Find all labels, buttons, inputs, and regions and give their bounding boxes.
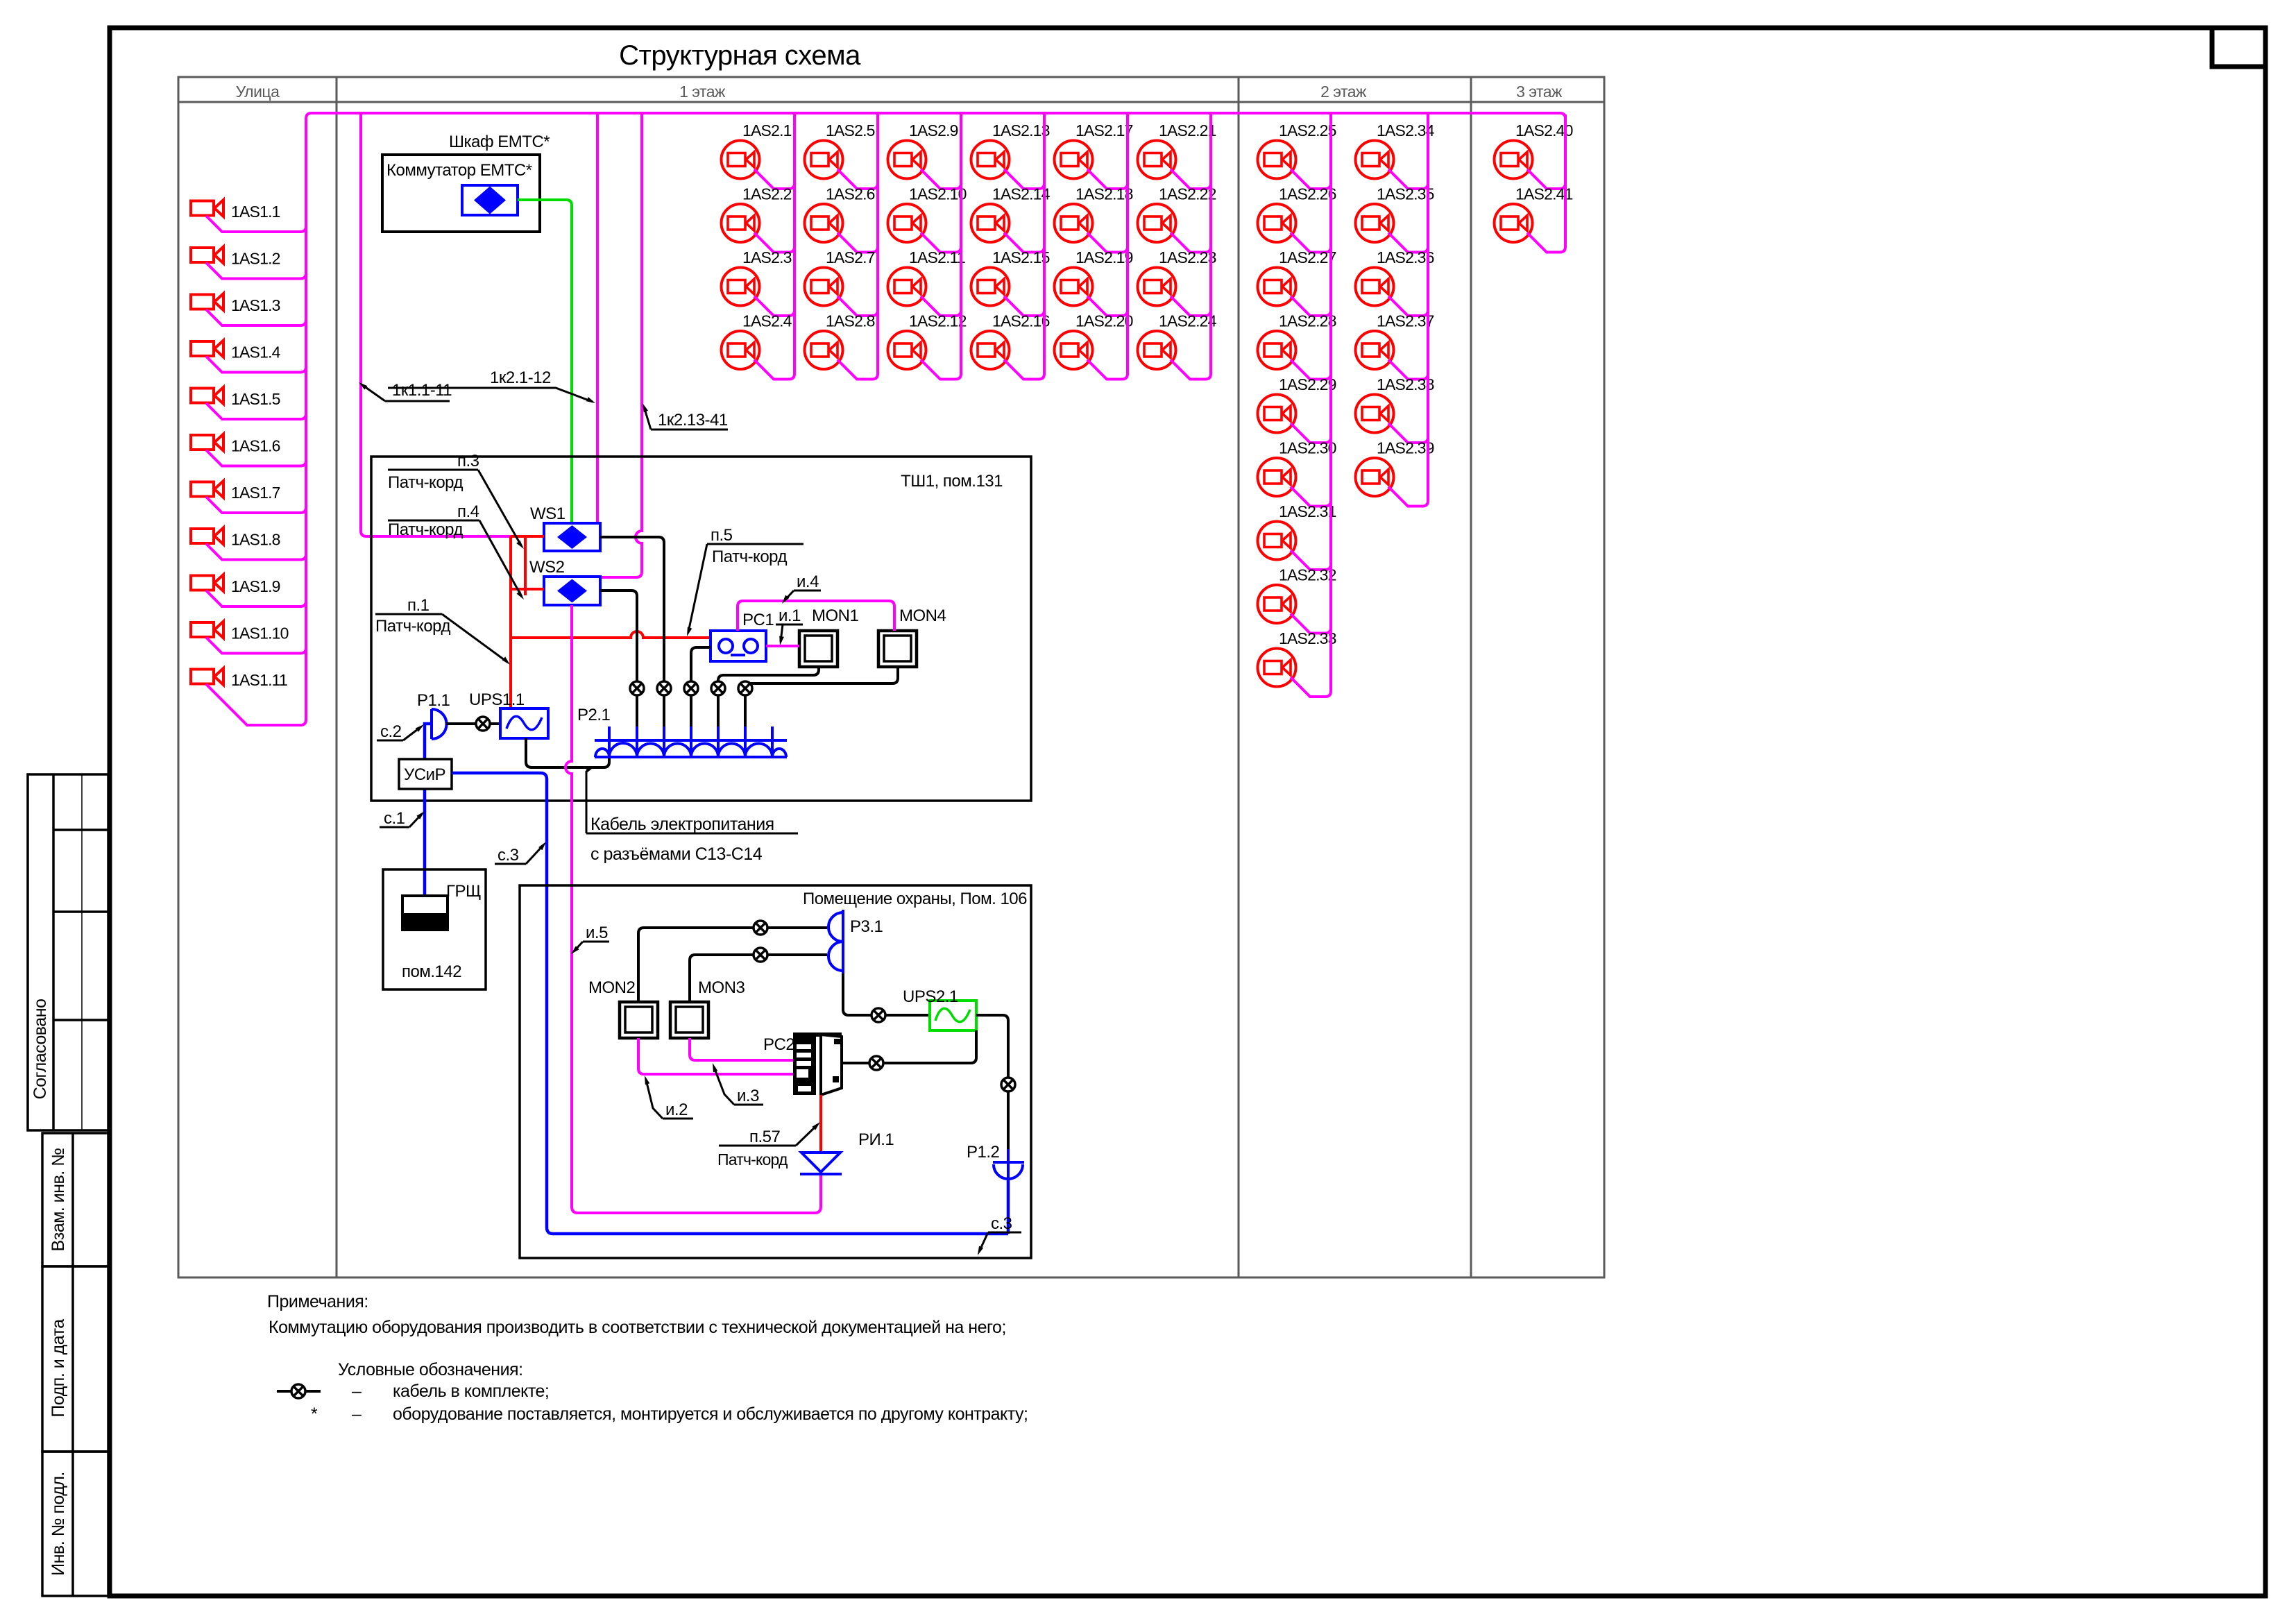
wire camera 1AS1.8 to street bus <box>206 544 306 560</box>
label Кабель электропитания <box>586 766 798 834</box>
wire camera 1AS2.2 to bus <box>754 233 794 253</box>
svg-text:Подп. и дата: Подп. и дата <box>49 1319 68 1418</box>
black wire P3.1 to UPS2.1 <box>843 974 930 1015</box>
label п.4 Патч-корд <box>388 502 524 600</box>
dome camera 1AS2.24 <box>1138 331 1176 369</box>
dome camera 1AS2.8 <box>805 331 843 369</box>
wire camera 1AS2.37 to bus <box>1388 360 1428 380</box>
dome camera 1AS2.20 <box>1055 331 1093 369</box>
wire camera 1AS2.39 to bus <box>1388 487 1428 507</box>
wire camera 1AS2.35 to bus <box>1388 233 1428 253</box>
box ГРЩ пом.142 <box>383 869 486 989</box>
stamp block Взам. инв. № <box>42 1133 108 1266</box>
svg-text:1AS2.1: 1AS2.1 <box>742 121 792 139</box>
red patch-cord п.57 PC2 to РИ.1 <box>819 1095 822 1153</box>
dome camera 1AS2.3 <box>722 268 760 306</box>
cable label 1к2.1-12 <box>388 368 595 403</box>
black power wire PC1 <box>691 647 711 757</box>
svg-text:1AS2.9: 1AS2.9 <box>909 121 958 139</box>
wire camera 1AS2.20 to bus <box>1087 360 1128 380</box>
svg-text:1AS1.6: 1AS1.6 <box>231 437 280 455</box>
svg-text:1AS2.21: 1AS2.21 <box>1159 121 1216 139</box>
wire camera 1AS2.30 to bus <box>1291 487 1331 507</box>
svg-text:1AS2.31: 1AS2.31 <box>1279 502 1336 520</box>
dome camera 1AS2.14 <box>971 204 1010 242</box>
svg-text:1AS1.5: 1AS1.5 <box>231 390 280 408</box>
svg-text:PC1: PC1 <box>742 611 774 629</box>
svg-text:1AS1.1: 1AS1.1 <box>231 203 280 221</box>
box Помещение охраны <box>520 885 1031 1258</box>
cable label 1к2.13-41 <box>643 403 728 430</box>
wire camera 1AS2.27 to bus <box>1291 296 1331 316</box>
dome camera 1AS2.23 <box>1138 268 1176 306</box>
dome camera 1AS2.33 <box>1258 649 1296 687</box>
monitor MON2 <box>620 1002 658 1038</box>
svg-text:и.1: и.1 <box>779 606 801 625</box>
wire camera 1AS2.7 to bus <box>837 296 878 316</box>
dome camera 1AS2.4 <box>722 331 760 369</box>
svg-text:1AS2.26: 1AS2.26 <box>1279 185 1336 203</box>
black power wire PC2 to UPS2.1 <box>842 1030 976 1063</box>
svg-text:п.3: п.3 <box>457 452 479 470</box>
black wire P1.1 to UPS1.1 <box>446 722 500 725</box>
dome camera 1AS2.16 <box>971 331 1010 369</box>
svg-text:1AS2.23: 1AS2.23 <box>1159 248 1216 266</box>
svg-text:1AS2.29: 1AS2.29 <box>1279 375 1336 393</box>
wire camera 1AS2.38 to bus <box>1388 423 1428 443</box>
svg-text:п.4: п.4 <box>457 502 479 521</box>
dome camera 1AS2.17 <box>1055 141 1093 179</box>
svg-text:1к2.1-12: 1к2.1-12 <box>490 368 551 387</box>
svg-text:Коммутацию оборудования произв: Коммутацию оборудования производить в со… <box>269 1318 1006 1337</box>
svg-text:1 этаж: 1 этаж <box>679 83 726 101</box>
dome camera 1AS2.38 <box>1356 395 1394 433</box>
svg-text:кабель в комплекте;: кабель в комплекте; <box>393 1382 549 1401</box>
wire trunk drop 1к2.13-41 to WS2 <box>600 113 642 577</box>
wire camera 1AS2.24 to bus <box>1171 360 1211 380</box>
wire camera 1AS1.4 to street bus <box>206 357 306 373</box>
camera bus at x=1625 <box>1126 114 1129 374</box>
dome camera 1AS2.31 <box>1258 522 1296 560</box>
switch WS2 <box>544 577 600 605</box>
svg-text:1к1.1-11: 1к1.1-11 <box>392 381 452 400</box>
svg-text:1AS2.3: 1AS2.3 <box>742 248 792 266</box>
svg-text:п.5: п.5 <box>711 526 733 545</box>
svg-text:1AS2.32: 1AS2.32 <box>1279 566 1336 584</box>
switch WS1 <box>544 523 600 551</box>
wire camera 1AS2.34 to bus <box>1388 169 1428 189</box>
dome camera 1AS2.11 <box>888 268 926 306</box>
wire camera 1AS2.14 to bus <box>1004 233 1044 253</box>
svg-text:1AS2.5: 1AS2.5 <box>826 121 875 139</box>
svg-text:ТШ1, пом.131: ТШ1, пом.131 <box>901 472 1003 491</box>
wire camera 1AS2.23 to bus <box>1171 296 1211 316</box>
svg-text:п.1: п.1 <box>407 596 430 615</box>
wire camera 1AS1.7 to street bus <box>206 497 306 513</box>
wire camera 1AS2.10 to bus <box>921 233 961 253</box>
label с.2 <box>377 722 424 741</box>
camera 1AS1.6 <box>191 434 223 451</box>
svg-text:1AS2.13: 1AS2.13 <box>992 121 1050 139</box>
wire camera 1AS2.22 to bus <box>1171 233 1211 253</box>
wire camera 1AS2.29 to bus <box>1291 423 1331 443</box>
label п.3 Патч-корд <box>388 452 524 549</box>
monitor MON4 <box>878 631 917 667</box>
wire camera 1AS2.26 to bus <box>1291 233 1331 253</box>
camera 1AS1.7 <box>191 481 223 498</box>
svg-text:1AS2.27: 1AS2.27 <box>1279 248 1336 266</box>
switchboard ГРЩ icon <box>402 896 448 930</box>
dome camera 1AS2.34 <box>1356 141 1394 179</box>
wire camera 1AS2.32 to bus <box>1291 614 1331 634</box>
svg-text:1AS2.15: 1AS2.15 <box>992 248 1050 266</box>
svg-text:ГРЩ: ГРЩ <box>446 882 481 901</box>
dome camera 1AS2.12 <box>888 331 926 369</box>
svg-text:–: – <box>352 1382 362 1401</box>
wire camera 1AS2.12 to bus <box>921 360 961 380</box>
UPS UPS2.1 <box>930 1001 976 1030</box>
dome camera 1AS2.30 <box>1258 458 1296 496</box>
svg-text:P1.2: P1.2 <box>967 1143 1000 1162</box>
black wire MON2 to P3.1 <box>638 928 827 1002</box>
dome camera 1AS2.35 <box>1356 204 1394 242</box>
svg-text:P2.1: P2.1 <box>577 706 611 724</box>
blue wire P1.2 down <box>1007 1180 1010 1234</box>
svg-text:MON1: MON1 <box>812 606 858 625</box>
stamp block Подп. и дата <box>42 1266 108 1452</box>
dome camera 1AS2.26 <box>1258 204 1296 242</box>
svg-text:–: – <box>352 1404 362 1424</box>
svg-text:WS1: WS1 <box>530 504 566 523</box>
camera bus at x=1145 <box>793 114 796 374</box>
camera bus at x=1505 <box>1043 114 1046 374</box>
connector symbol PC2-UPS2.1 <box>869 1056 883 1070</box>
svg-text:1AS2.14: 1AS2.14 <box>992 185 1051 203</box>
connector symbol on power drop 3 <box>684 681 698 695</box>
svg-text:с.2: с.2 <box>380 722 402 741</box>
wire camera 1AS2.8 to bus <box>837 360 878 380</box>
wire camera 1AS2.18 to bus <box>1087 233 1128 253</box>
svg-text:с разъёмами С13-С14: с разъёмами С13-С14 <box>590 844 763 864</box>
svg-text:MON4: MON4 <box>899 606 946 625</box>
monitor MON1 <box>799 631 837 667</box>
svg-text:и.5: и.5 <box>586 924 608 942</box>
wire camera 1AS2.31 to bus <box>1291 550 1331 570</box>
svg-text:1AS1.2: 1AS1.2 <box>231 250 280 268</box>
svg-text:1AS2.12: 1AS2.12 <box>909 312 967 330</box>
wire camera 1AS1.5 to street bus <box>206 403 306 419</box>
svg-text:и.2: и.2 <box>665 1101 688 1119</box>
label и.2 <box>645 1076 693 1119</box>
blue wire P1.1 to УСиР <box>425 724 432 896</box>
svg-text:Патч-корд: Патч-корд <box>388 473 463 492</box>
connector symbol P3.1-UPS2.1 <box>871 1008 885 1022</box>
svg-text:пом.142: пом.142 <box>402 962 461 981</box>
svg-text:Патч-корд: Патч-корд <box>388 520 463 539</box>
camera bus at x=2058 <box>1427 114 1429 501</box>
wire camera 1AS2.4 to bus <box>754 360 794 380</box>
wire camera 1AS2.41 to bus <box>1527 233 1565 253</box>
wire camera 1AS2.16 to bus <box>1004 360 1044 380</box>
svg-text:MON3: MON3 <box>698 978 745 997</box>
svg-text:с.3: с.3 <box>991 1214 1012 1233</box>
dome camera 1AS2.36 <box>1356 268 1394 306</box>
label и.5 <box>571 924 609 954</box>
red patch-cord п.3 WS1-WS2 <box>511 536 544 595</box>
connector symbol UPS2.1-P1.2 <box>1001 1078 1015 1091</box>
label с.3 bottom right <box>978 1214 1021 1255</box>
svg-text:1AS1.8: 1AS1.8 <box>231 531 280 549</box>
svg-text:с.3: с.3 <box>498 846 519 865</box>
label и.1 <box>776 606 803 645</box>
wire camera 1AS1.10 to street bus <box>206 638 306 654</box>
wire camera 1AS2.28 to bus <box>1291 360 1331 380</box>
svg-text:1AS2.22: 1AS2.22 <box>1159 185 1216 203</box>
dome camera 1AS2.29 <box>1258 395 1296 433</box>
splitter РИ.1 <box>800 1153 842 1174</box>
svg-text:Улица: Улица <box>236 83 280 101</box>
dome camera 1AS2.13 <box>971 141 1010 179</box>
svg-text:3 этаж: 3 этаж <box>1516 83 1563 101</box>
switch Коммутатор ЕМТС icon <box>462 185 518 215</box>
dome camera 1AS2.6 <box>805 204 843 242</box>
svg-text:1AS2.18: 1AS2.18 <box>1075 185 1133 203</box>
svg-text:1к2.13-41: 1к2.13-41 <box>658 411 728 430</box>
street camera bus <box>305 119 307 720</box>
svg-text:1AS2.37: 1AS2.37 <box>1377 312 1434 330</box>
wire camera 1AS2.21 to bus <box>1171 169 1211 189</box>
magenta wire и.5 WS2 to PC2/РИ.1 <box>566 605 821 1213</box>
red patch-cord п.1 to UPS1.1 <box>509 536 512 708</box>
svg-text:1AS1.10: 1AS1.10 <box>231 624 289 643</box>
camera bus at x=1918 <box>1329 114 1332 691</box>
wire camera 1AS2.33 to bus <box>1291 677 1331 697</box>
red patch-cord п.5 to PC1 <box>511 631 711 638</box>
magenta wire и.4 PC1 to MON4 <box>738 601 894 631</box>
dome camera 1AS2.7 <box>805 268 843 306</box>
svg-text:и.4: и.4 <box>797 572 819 591</box>
cable label 1к1.1-11 <box>359 381 452 401</box>
black wire MON3 to P3.1 <box>690 955 827 1002</box>
svg-text:Примечания:: Примечания: <box>267 1292 368 1311</box>
green wire EMTC switch to WS1 <box>518 200 572 523</box>
blue wire УСиР to security room <box>452 773 1008 1234</box>
dome camera 1AS2.37 <box>1356 331 1394 369</box>
wire camera 1AS1.11 to street bus <box>206 684 306 725</box>
wire camera 1AS2.36 to bus <box>1388 296 1428 316</box>
svg-text:1AS2.25: 1AS2.25 <box>1279 121 1336 139</box>
camera 1AS1.8 <box>191 528 223 545</box>
svg-text:1AS2.8: 1AS2.8 <box>826 312 875 330</box>
wire camera 1AS2.3 to bus <box>754 296 794 316</box>
socket P1.2 <box>993 1149 1024 1180</box>
svg-text:2 этаж: 2 этаж <box>1320 83 1367 101</box>
svg-text:РИ.1: РИ.1 <box>858 1130 894 1149</box>
camera bus at x=2256 <box>1564 114 1567 247</box>
svg-text:Патч-корд: Патч-корд <box>717 1150 788 1169</box>
wire camera 1AS2.5 to bus <box>837 169 878 189</box>
svg-text:с.1: с.1 <box>384 809 405 828</box>
svg-text:1AS2.35: 1AS2.35 <box>1377 185 1434 203</box>
svg-text:P1.1: P1.1 <box>417 691 450 710</box>
svg-text:1AS2.38: 1AS2.38 <box>1377 375 1434 393</box>
svg-text:Патч-корд: Патч-корд <box>375 617 450 636</box>
black power wire WS2 <box>600 590 637 757</box>
computer PC2 <box>793 1033 842 1095</box>
wire camera 1AS2.11 to bus <box>921 296 961 316</box>
svg-text:1AS2.39: 1AS2.39 <box>1377 439 1434 457</box>
dome camera 1AS2.40 <box>1495 141 1533 179</box>
cabinet Шкаф ЕМТС box <box>382 155 540 232</box>
camera 1AS1.9 <box>191 575 223 591</box>
svg-text:1AS2.6: 1AS2.6 <box>826 185 875 203</box>
zone table grid <box>178 77 1604 1277</box>
connector symbol on power drop 4 <box>711 681 725 695</box>
svg-text:1AS2.10: 1AS2.10 <box>909 185 967 203</box>
svg-text:Коммутатор ЕМТС*: Коммутатор ЕМТС* <box>386 161 532 180</box>
dome camera 1AS2.27 <box>1258 268 1296 306</box>
dome camera 1AS2.39 <box>1356 458 1394 496</box>
black power wire MON4 <box>745 667 898 757</box>
dome camera 1AS2.15 <box>971 268 1010 306</box>
svg-text:1AS2.36: 1AS2.36 <box>1377 248 1434 266</box>
connector symbol MON3-P3.1 <box>754 948 767 962</box>
svg-text:1AS1.4: 1AS1.4 <box>231 343 281 362</box>
svg-text:и.3: и.3 <box>737 1087 759 1105</box>
svg-text:1AS1.9: 1AS1.9 <box>231 577 280 595</box>
UPS UPS1.1 <box>500 708 548 738</box>
label п.57 Патч-корд <box>719 1122 820 1146</box>
wire camera 1AS1.6 to street bus <box>206 450 306 466</box>
camera bus at x=1265 <box>876 114 879 374</box>
svg-text:Инв. № подл.: Инв. № подл. <box>49 1472 68 1576</box>
wire camera 1AS1.2 to street bus <box>206 263 306 279</box>
magenta wire и.1 PC1 to MON1 <box>766 645 799 647</box>
dome camera 1AS2.18 <box>1055 204 1093 242</box>
magenta wire и.2 MON2 to PC2 <box>638 1038 793 1074</box>
connector symbol on power drop 5 <box>738 681 752 695</box>
wire camera 1AS2.6 to bus <box>837 233 878 253</box>
svg-text:1AS2.19: 1AS2.19 <box>1075 248 1133 266</box>
svg-text:*: * <box>311 1404 318 1424</box>
wire trunk drop 1к2.1-12 to WS1 top <box>596 113 599 523</box>
label с.3 near УСиР <box>495 842 546 865</box>
wire camera 1AS2.19 to bus <box>1087 296 1128 316</box>
power strip P2.1 <box>595 726 787 757</box>
camera 1AS1.11 <box>191 668 223 685</box>
camera 1AS1.1 <box>191 200 223 216</box>
wire camera 1AS2.25 to bus <box>1291 169 1331 189</box>
dome camera 1AS2.2 <box>722 204 760 242</box>
dome camera 1AS2.32 <box>1258 585 1296 623</box>
svg-text:1AS2.33: 1AS2.33 <box>1279 629 1336 647</box>
wire camera 1AS2.17 to bus <box>1087 169 1128 189</box>
svg-text:УСиР: УСиР <box>404 765 445 784</box>
dome camera 1AS2.28 <box>1258 331 1296 369</box>
camera bus at x=1385 <box>960 114 962 374</box>
wire camera 1AS2.1 to bus <box>754 169 794 189</box>
black power wire MON1 <box>718 667 819 757</box>
wire camera 1AS2.15 to bus <box>1004 296 1044 316</box>
connector symbol MON2-P3.1 <box>754 921 767 935</box>
svg-text:Патч-корд: Патч-корд <box>712 547 787 566</box>
svg-text:1AS1.7: 1AS1.7 <box>231 484 280 502</box>
black wire UPS2.1 to P1.2 <box>976 1015 1008 1149</box>
camera 1AS1.10 <box>191 622 223 638</box>
svg-text:Согласовано: Согласовано <box>31 999 50 1100</box>
svg-text:1AS2.4: 1AS2.4 <box>742 312 792 330</box>
dome camera 1AS2.25 <box>1258 141 1296 179</box>
dome camera 1AS2.22 <box>1138 204 1176 242</box>
connector symbol on power drop 1 <box>630 681 644 695</box>
box УСиР <box>399 759 452 789</box>
svg-text:Помещение охраны, Пом. 106: Помещение охраны, Пом. 106 <box>803 890 1027 908</box>
svg-text:1AS2.20: 1AS2.20 <box>1075 312 1133 330</box>
socket P1.1 <box>432 709 447 739</box>
dome camera 1AS2.1 <box>722 141 760 179</box>
wire camera 1AS1.9 to street bus <box>206 590 306 606</box>
svg-text:Взам. инв. №: Взам. инв. № <box>49 1148 68 1252</box>
black wire UPS1.1 to power strip <box>526 738 609 767</box>
svg-text:п.57: п.57 <box>749 1128 781 1146</box>
camera bus at x=1745 <box>1209 114 1212 374</box>
camera 1AS1.2 <box>191 247 223 264</box>
wire camera 1AS2.13 to bus <box>1004 169 1044 189</box>
svg-text:1AS1.3: 1AS1.3 <box>231 296 280 314</box>
svg-text:1AS2.11: 1AS2.11 <box>909 248 965 266</box>
dome camera 1AS2.19 <box>1055 268 1093 306</box>
stamp block Согласовано <box>28 774 108 1130</box>
svg-text:оборудование поставляется, мон: оборудование поставляется, монтируется и… <box>393 1404 1028 1424</box>
camera 1AS1.3 <box>191 294 223 310</box>
svg-text:MON2: MON2 <box>588 978 635 997</box>
box ТШ1 пом.131 <box>371 457 1031 801</box>
svg-text:Структурная схема: Структурная схема <box>619 40 861 71</box>
svg-text:1AS2.28: 1AS2.28 <box>1279 312 1336 330</box>
label и.4 <box>782 572 821 604</box>
stamp block Инв. № подл. <box>42 1452 108 1596</box>
wire camera 1AS2.40 to bus <box>1527 169 1565 189</box>
svg-text:1AS2.17: 1AS2.17 <box>1075 121 1133 139</box>
dome camera 1AS2.9 <box>888 141 926 179</box>
svg-text:Шкаф ЕМТС*: Шкаф ЕМТС* <box>449 133 550 151</box>
svg-text:1AS2.24: 1AS2.24 <box>1159 312 1217 330</box>
wire camera 1AS2.9 to bus <box>921 169 961 189</box>
connector symbol on power drop 2 <box>657 681 671 695</box>
magenta trunk line <box>306 113 1565 119</box>
svg-text:UPS2.1: UPS2.1 <box>903 987 958 1006</box>
svg-text:1AS2.16: 1AS2.16 <box>992 312 1050 330</box>
svg-text:UPS1.1: UPS1.1 <box>469 690 525 709</box>
label п.1 Патч-корд <box>375 596 510 665</box>
svg-text:WS2: WS2 <box>529 558 565 577</box>
connector symbol P1.1-UPS1.1 <box>476 717 490 731</box>
dome camera 1AS2.10 <box>888 204 926 242</box>
svg-text:Кабель электропитания: Кабель электропитания <box>590 815 774 834</box>
wire trunk drop 1к1.1-11 to WS1 <box>361 113 544 536</box>
wire camera 1AS1.3 to street bus <box>206 309 306 325</box>
camera 1AS1.4 <box>191 341 223 357</box>
label п.5 Патч-корд <box>687 526 803 636</box>
wire camera 1AS1.1 to street bus <box>206 216 306 232</box>
black power wire WS1 <box>600 537 664 757</box>
svg-text:PC2: PC2 <box>763 1035 794 1054</box>
monitor MON3 <box>670 1002 708 1038</box>
svg-text:Условные обозначения:: Условные обозначения: <box>338 1360 523 1379</box>
dome camera 1AS2.21 <box>1138 141 1176 179</box>
label и.3 <box>713 1063 763 1105</box>
magenta wire и.3 MON3 to PC2 <box>690 1038 793 1060</box>
